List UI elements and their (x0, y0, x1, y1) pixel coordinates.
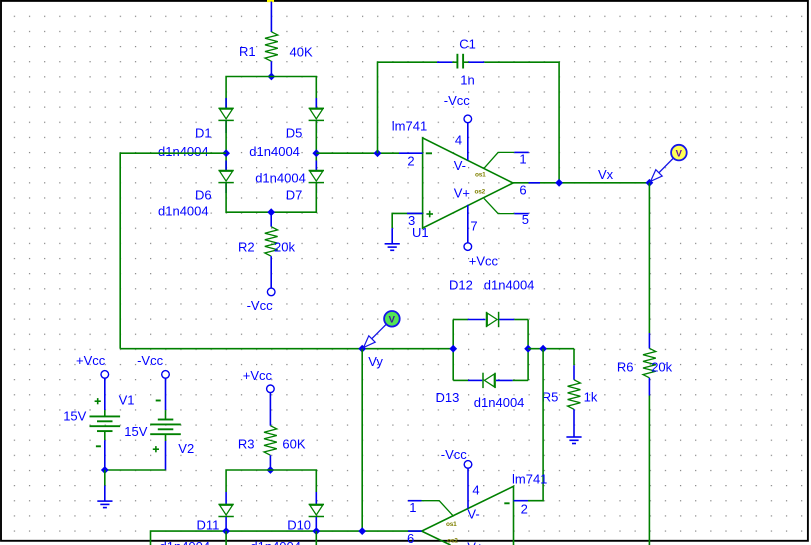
diode D10 (309, 504, 324, 516)
diode D5 (309, 108, 324, 120)
svg-text:15V: 15V (63, 409, 86, 424)
op-amp U1 pin 3 stub blue (407, 212, 423, 214)
capacitor C1 (452, 54, 468, 69)
resistor R5 pin top (573, 365, 575, 380)
wire box top left segment (453, 319, 468, 321)
plus sign of V1 (95, 398, 101, 404)
node battery junction (101, 466, 109, 474)
svg-text:-Vcc: -Vcc (441, 447, 468, 462)
wire Vy horizontal (120, 348, 453, 350)
svg-text:-Vcc: -Vcc (444, 93, 471, 108)
svg-text:2: 2 (407, 154, 414, 169)
diode D6 (218, 171, 233, 183)
node feedback tap junction (374, 149, 382, 157)
wire right bridge junction to op-amp pin 2 (316, 152, 399, 154)
diode D7 (309, 171, 324, 183)
svg-text:6: 6 (519, 183, 526, 198)
resistor R1 (265, 32, 278, 61)
diode D1 (218, 108, 233, 120)
diode D12 (487, 312, 499, 327)
capacitor C1 pin right (469, 61, 485, 63)
node left bridge junction (222, 149, 230, 157)
resistor R1 pin bottom (270, 61, 272, 76)
svg-text:V: V (676, 148, 683, 159)
diode D12 pin right (499, 319, 514, 321)
svg-text:1: 1 (409, 500, 416, 515)
svg-text:d1n4004: d1n4004 (474, 395, 525, 410)
op-amp U1 triangle (423, 138, 513, 228)
node Vy junction (358, 345, 366, 353)
svg-text:lm741: lm741 (392, 119, 427, 134)
wire bottom rail (151, 531, 422, 545)
svg-text:V-: V- (454, 158, 466, 173)
plus sign at pin 3 (426, 211, 433, 218)
diode D13 pin right (496, 379, 513, 381)
svg-text:6: 6 (407, 531, 414, 545)
svg-text:D7: D7 (286, 188, 303, 203)
voltage probe at Vy (364, 311, 400, 347)
svg-text:R1: R1 (239, 44, 256, 59)
diode D13 (483, 373, 495, 388)
svg-text:D13: D13 (436, 390, 460, 405)
svg-text:20k: 20k (651, 360, 672, 375)
svg-text:R3: R3 (238, 437, 255, 452)
wire parallel diode box right (527, 320, 529, 381)
resistor R3 pin bottom (269, 455, 271, 470)
node junction at bottom rail below Vy (358, 527, 366, 535)
wire feedback loop up and right (378, 62, 438, 153)
svg-text:V-: V- (467, 507, 479, 522)
minus sign of V2 (156, 400, 161, 402)
diode D10 pin stub (315, 492, 317, 504)
resistor R1 pin top (270, 2, 272, 33)
op-amp U2 pin 4 (467, 468, 469, 508)
battery V2 (150, 378, 181, 470)
svg-text:-Vcc: -Vcc (247, 298, 274, 313)
svg-text:2: 2 (521, 502, 528, 517)
resistor R5 pin bottom (573, 409, 575, 437)
terminal circle -Vcc of V2 (162, 371, 170, 379)
minus sign at U2 pin 2 (504, 502, 509, 504)
wire op-amp output to Vx corner (513, 182, 649, 184)
resistor R5 (568, 380, 581, 410)
svg-text:R5: R5 (542, 390, 559, 405)
diode D5 pin stub (315, 98, 317, 108)
svg-text:5: 5 (522, 212, 529, 227)
node D10 junction (312, 527, 320, 535)
resistor R3 (264, 426, 277, 456)
wire R6 down to bottom edge (648, 396, 650, 545)
capacitor C1 pin left (437, 61, 453, 63)
svg-text:C1: C1 (459, 37, 476, 52)
svg-text:d1n4004: d1n4004 (160, 539, 211, 545)
svg-text:Vx: Vx (598, 167, 614, 182)
node right bridge junction (312, 149, 320, 157)
minus sign of V1 (96, 445, 101, 447)
diode D6 pin bottom (225, 183, 227, 193)
terminal circle +Vcc at pin 7 (464, 243, 472, 251)
diode D11 (218, 504, 233, 516)
terminal circle -Vcc at U2 pin 4 (464, 461, 472, 469)
wire from left bridge junction to left rail (120, 153, 226, 349)
svg-text:R6: R6 (617, 360, 634, 375)
svg-text:1n: 1n (460, 73, 474, 88)
wire bridge top rail (226, 77, 316, 109)
op-amp U1 pin 2 stub (399, 152, 423, 154)
diode D5 pin bottom (315, 121, 317, 133)
diode D1 pin stubs (225, 98, 227, 108)
wire bridge left mid (225, 121, 227, 171)
svg-text:os1: os1 (475, 172, 486, 179)
diode D7 pin stub (315, 161, 317, 171)
node R3 bottom junction (267, 466, 275, 474)
wire box bottom right segment (513, 379, 529, 381)
wire R5 top (573, 349, 575, 366)
diode D13 pin left (468, 379, 482, 381)
svg-text:1k: 1k (584, 390, 598, 405)
wire R3 junction to D10 (270, 470, 316, 492)
op-amp U1 pin 1 line (484, 152, 529, 168)
svg-text:d1n4004: d1n4004 (250, 539, 301, 545)
minus sign at pin 2 (426, 152, 432, 154)
svg-text:d1n4004: d1n4004 (158, 204, 209, 219)
resistor R6 pin bottom (648, 378, 650, 396)
op-amp U2 pin 2 stub (514, 500, 529, 502)
svg-text:7: 7 (470, 219, 477, 234)
svg-text:D6: D6 (195, 188, 212, 203)
node junction bottom rail (267, 208, 275, 216)
wire battery junction down (104, 470, 106, 486)
svg-text:os1: os1 (446, 521, 457, 528)
wire D10 junction down (315, 531, 317, 545)
wire R3 junction to D11 (226, 470, 270, 492)
resistor R2 (265, 227, 278, 256)
diode D1 pin bottom (225, 121, 227, 133)
op-amp U2 triangle (clipped) (422, 486, 514, 545)
node box right junction (524, 345, 532, 353)
terminal circle +Vcc of R3 (267, 385, 275, 393)
op-amp U1 pin 4 (467, 123, 469, 161)
op-amp U1 pin 6 stub (529, 182, 541, 184)
node D11 junction (222, 527, 230, 535)
ground below batteries (97, 486, 112, 508)
node Vx corner junction (646, 179, 654, 187)
op-amp U2 pin 1 line (408, 501, 453, 516)
svg-text:V+: V+ (454, 186, 470, 201)
node junction below R1 (268, 73, 276, 81)
node output junction C1 (555, 179, 563, 187)
resistor R2 pin top (270, 212, 272, 227)
wire bridge bottom rail (226, 183, 316, 212)
op-amp U1 pin 5 line (484, 198, 529, 213)
resistor R3 pin top (269, 393, 271, 426)
svg-text:Vy: Vy (368, 354, 383, 369)
svg-text:60K: 60K (282, 437, 305, 452)
svg-text:D11: D11 (197, 518, 220, 533)
svg-text:40K: 40K (290, 45, 313, 60)
svg-text:4: 4 (455, 133, 462, 148)
resistor R2 pin bottom (270, 256, 272, 288)
diode D12 pin left (468, 319, 486, 321)
svg-text:D10: D10 (287, 518, 311, 533)
diode D7 pin bottom (315, 183, 317, 193)
svg-text:1: 1 (519, 152, 526, 167)
ground at U1 pin 3 (385, 228, 400, 250)
terminal circle -Vcc of R2 (267, 288, 275, 296)
plus sign of V2 (153, 446, 159, 452)
svg-text:+Vcc: +Vcc (469, 254, 499, 269)
voltage probe at Vx (651, 145, 687, 182)
diode D10 pin bottom (315, 517, 317, 531)
clipped yellow marker at top edge (267, 0, 274, 2)
battery V1 (90, 378, 121, 470)
svg-text:20k: 20k (274, 240, 295, 255)
node R5 tap junction (539, 345, 547, 353)
svg-text:D1: D1 (195, 126, 212, 141)
wire bridge right mid (315, 121, 317, 171)
svg-text:D12d1n4004: D12d1n4004 (449, 278, 534, 293)
svg-text:+Vcc: +Vcc (243, 368, 273, 383)
wire V2 bottom to V1 bottom (105, 469, 166, 471)
diode D6 pin stub (225, 161, 227, 171)
svg-text:U1: U1 (412, 225, 429, 240)
wire R5 junction down to op-amp 2 pin 2 (528, 349, 543, 501)
svg-text:15V: 15V (124, 424, 147, 439)
svg-text:os2: os2 (475, 189, 486, 196)
op-amp U1 pin 3 wire and ground stub (392, 213, 422, 228)
terminal circle -Vcc at pin 4 (464, 115, 472, 123)
svg-text:V1: V1 (119, 393, 135, 408)
resistor R6 pin top (648, 333, 650, 349)
diode D11 pin stub (225, 492, 227, 504)
svg-text:-Vcc: -Vcc (137, 353, 164, 368)
node box left junction (449, 345, 457, 353)
op-amp U2 pin 6 stub (408, 530, 422, 532)
svg-text:V: V (389, 315, 396, 326)
svg-text:D5: D5 (286, 126, 303, 141)
svg-text:V+: V+ (467, 540, 483, 545)
svg-text:+Vcc: +Vcc (76, 353, 106, 368)
wire parallel diode box left (452, 320, 454, 381)
diode D11 pin bottom (225, 517, 227, 531)
svg-text:4: 4 (472, 483, 479, 498)
wire box bottom left segment (453, 379, 468, 381)
svg-text:d1n4004: d1n4004 (249, 144, 300, 159)
svg-text:d1n4004: d1n4004 (158, 144, 209, 159)
svg-text:lm741: lm741 (512, 472, 547, 487)
svg-text:V2: V2 (178, 441, 194, 456)
resistor R6 (643, 348, 656, 378)
wire box top right segment (514, 319, 528, 321)
wire D11 junction down (225, 531, 227, 545)
wire box to R5 junction (528, 348, 574, 350)
op-amp U1 pin 7 (467, 205, 469, 243)
svg-text:d1n4004: d1n4004 (255, 171, 306, 186)
wire Vx down to R6 (648, 183, 650, 333)
wire feedback loop right side down to output (484, 62, 559, 183)
svg-text:os2: os2 (447, 538, 458, 545)
svg-text:R2: R2 (238, 240, 255, 255)
terminal circle +Vcc of V1 (101, 371, 109, 379)
ground below R5 (566, 437, 581, 444)
wire Vy junction down to bottom rail (361, 349, 363, 531)
